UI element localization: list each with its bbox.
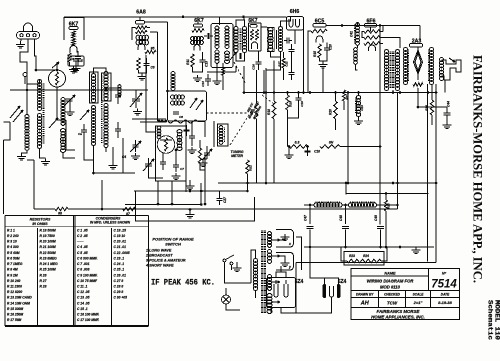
capacitor C23 electrolytic [358, 93, 360, 97]
wire choke link [342, 204, 350, 206]
oscillator coil [177, 130, 182, 151]
ground 6A8 [138, 74, 147, 81]
svg-text:C 28 8: C 28 8 [114, 285, 124, 289]
arrow into speaker [449, 58, 455, 62]
antenna coil L2 upper [37, 80, 41, 111]
grid cap 6K7 first [69, 27, 78, 30]
oscillator padder [160, 162, 166, 164]
svg-text:R 21 100M: R 21 100M [40, 245, 56, 249]
resistor 6A8 cathode [137, 58, 140, 70]
RF coil L4 upper [104, 72, 108, 101]
6F6 heater arch [369, 45, 376, 51]
wire vertical x247 [246, 183, 248, 191]
svg-text:C 15 .1: C 15 .1 [77, 307, 88, 311]
svg-text:WIRING DIAGRAM FOR: WIRING DIAGRAM FOR [367, 279, 414, 284]
resistor 6A8 grid [136, 26, 148, 29]
svg-text:R 28: R 28 [40, 285, 47, 289]
wire vertical x201 [200, 183, 202, 205]
svg-text:C 10 75 MMF: C 10 75 MMF [77, 279, 98, 283]
table frame [5, 216, 149, 327]
capacitor C8b in osc box [184, 130, 190, 131]
capacitor C7 [173, 165, 179, 167]
T2 secondary coil left [215, 50, 219, 63]
svg-text:C20: C20 [329, 44, 333, 50]
svg-text:C49: C49 [374, 215, 378, 221]
wire col x57 down [57, 87, 66, 120]
junction dots B+ [392, 91, 395, 94]
vertical wire x393 down [392, 90, 394, 93]
svg-text:MOD #110: MOD #110 [380, 284, 401, 289]
svg-text:7514: 7514 [431, 279, 457, 291]
svg-text:R 8 4M: R 8 4M [7, 268, 18, 272]
wires oscillator section [136, 90, 148, 92]
ground C9 [199, 160, 208, 167]
svg-text:6A8: 6A8 [136, 10, 146, 16]
output transformer primary [384, 50, 388, 91]
T2 primary coil left [215, 26, 219, 48]
svg-text:C 20 .01: C 20 .01 [114, 240, 127, 244]
wires left section [36, 69, 57, 71]
wire detector stub [56, 62, 58, 70]
bracket around sec 2 ground [276, 253, 294, 271]
ground trimmer [66, 109, 75, 116]
vertical wires to bottom bus [157, 181, 159, 204]
capacitor C9 swing [204, 153, 210, 155]
heater arch 6K7 second [194, 45, 200, 51]
vertical wire x428 [427, 84, 429, 262]
dashed line IF to meter [207, 112, 248, 114]
power transformer primary [253, 259, 257, 291]
T4 primary box [267, 28, 274, 52]
svg-text:R 6 50M: R 6 50M [7, 256, 20, 260]
svg-text:R 26: R 26 [40, 273, 47, 277]
box around L4 top [102, 73, 112, 101]
resistor 6K7 second grid [192, 29, 204, 32]
svg-text:C 23 .1: C 23 .1 [114, 256, 125, 260]
bracket around sec 1 ground [276, 230, 294, 248]
resistor R18 vertical [273, 93, 275, 102]
resistor R14 right [431, 84, 433, 100]
switch on volume control [223, 259, 226, 262]
vertical wire x380 [379, 26, 381, 225]
svg-text:C 22 .0005: C 22 .0005 [114, 251, 130, 255]
IF transformer T1 can [168, 91, 207, 121]
6C5 cathode resistor R15 [318, 44, 321, 58]
ground mid coils [109, 163, 118, 170]
RF coil L4 lower [104, 104, 108, 148]
6K7 third resistors [251, 30, 254, 41]
vertical wire x157 [157, 32, 159, 121]
wire C44 to 2A3 [417, 74, 419, 80]
svg-text:FAIRBANKS-MORSE HOME APP.,: FAIRBANKS-MORSE HOME APP., INC. [471, 55, 486, 283]
power transformer core [261, 231, 263, 313]
svg-text:R15: R15 [313, 51, 317, 57]
svg-text:6.3: 6.3 [295, 141, 300, 145]
trimmer cap second gang [132, 145, 138, 147]
svg-text:R 3 10: R 3 10 [7, 240, 17, 244]
svg-text:TCW: TCW [387, 301, 398, 306]
6K7 third arch [252, 42, 258, 49]
filter choke L11 [349, 203, 377, 208]
power transformer HV secondary upper [267, 232, 271, 248]
svg-text:R 17 56M: R 17 56M [7, 318, 22, 322]
svg-text:R16: R16 [250, 109, 254, 115]
heater arch 6A8 [138, 43, 145, 50]
title block frame [351, 269, 460, 320]
svg-text:C 12 .05: C 12 .05 [77, 290, 90, 294]
svg-text:C 29 8: C 29 8 [114, 290, 124, 294]
2A3 left coil [403, 48, 407, 85]
svg-text:8H: 8H [329, 141, 334, 145]
T3 trimmers [240, 53, 241, 59]
svg-text:R24: R24 [363, 254, 369, 258]
T2 primary coil right [225, 26, 229, 48]
capacitor below R17 [289, 73, 295, 75]
svg-text:AH: AH [360, 301, 370, 307]
dashed gang line upper [262, 95, 274, 104]
svg-text:R25: R25 [387, 203, 391, 209]
wire 6K7 second cathode [193, 67, 203, 72]
svg-text:C22: C22 [285, 61, 289, 67]
svg-text:C 6 300 MMF.: C 6 300 MMF. [77, 256, 98, 260]
capacitor C49 [377, 227, 384, 229]
svg-text:2 BROADCAST: 2 BROADCAST [145, 254, 173, 258]
T1 primary [171, 95, 185, 99]
svg-text:METER: METER [231, 154, 243, 158]
L3 box [90, 72, 99, 103]
antenna loop terminal strip [17, 32, 40, 40]
svg-text:R 11 2300: R 11 2300 [7, 285, 22, 289]
wire HV tap to rectifier [296, 237, 302, 270]
grid cap 6K7 second [194, 24, 203, 27]
tuning capacitor C2 [145, 164, 152, 166]
svg-text:C 4 .05: C 4 .05 [77, 245, 88, 249]
svg-text:C 26 .01: C 26 .01 [114, 273, 127, 277]
capacitor C48 [345, 205, 347, 224]
oscillator box [156, 126, 187, 181]
svg-text:R 27: R 27 [40, 279, 47, 283]
resistor R6 inline [55, 207, 68, 211]
tube circle 6A8 oscillator [157, 136, 175, 154]
6C5 heater arch [316, 36, 323, 43]
svg-text:R 7 1MEG: R 7 1MEG [7, 262, 23, 266]
wire bottom bus [68, 208, 397, 210]
svg-text:R18: R18 [267, 109, 271, 115]
vertical wire x436 [435, 84, 437, 263]
pilot lamp [222, 295, 231, 304]
ground C3 [72, 66, 81, 73]
wires T3 [236, 20, 245, 27]
wire 8H to right [340, 146, 380, 148]
wire 6K7 cathode to ground [69, 62, 71, 66]
ground L1 [17, 154, 26, 161]
T2 secondary coil right [225, 51, 230, 63]
5Z4 second plates [323, 284, 327, 298]
vertical wire x167 [167, 22, 169, 91]
svg-text:R 15 300M: R 15 300M [7, 307, 23, 311]
T4 trimmer [287, 38, 289, 44]
wire switch to transformer [225, 270, 252, 283]
speaker bracket [442, 60, 462, 80]
svg-text:CHECKED: CHECKED [384, 293, 400, 297]
wires rectifier outputs [281, 304, 332, 313]
capacitor C10 mid [189, 136, 195, 138]
wire 5Z4 plate leads [276, 272, 286, 278]
bypass capacitor C5 [75, 57, 81, 59]
ground C23 [354, 118, 363, 125]
svg-text:Ca: Ca [78, 132, 82, 136]
T1 switch arrows [190, 98, 197, 108]
junction dot bus x243 [242, 15, 245, 18]
wire vertical x219 [219, 191, 221, 196]
dashed gang line from T2 [234, 62, 246, 84]
svg-text:C 11 .1: C 11 .1 [77, 285, 88, 289]
heater arch 6K7 first [70, 46, 77, 53]
ground C18 [285, 152, 294, 159]
ground second gang [131, 153, 140, 160]
wire nested corners near gang [132, 118, 166, 120]
6F6 grid cap [365, 24, 377, 28]
envelope 6K7 first [64, 18, 84, 41]
svg-text:Schematic: Schematic [487, 300, 494, 340]
T2 trimmer cap left upper [208, 33, 209, 39]
wire primary top [251, 250, 256, 283]
wire antenna to coils [26, 71, 28, 77]
wire L5 bottom [63, 152, 75, 158]
svg-text:C14: C14 [201, 81, 205, 87]
T2 resistor R12 [222, 68, 225, 76]
wire range switch y191 [134, 190, 247, 192]
trimmer with arrow [66, 99, 73, 101]
svg-text:R19: R19 [289, 101, 293, 107]
capacitor C44 [444, 113, 451, 115]
resistor R2 horizontal [168, 120, 198, 124]
ground range box [186, 212, 195, 219]
svg-text:3 POLICE & AMATEUR: 3 POLICE & AMATEUR [146, 259, 186, 263]
capacitor C27 [217, 199, 223, 201]
horizontal connect y183 [218, 182, 436, 184]
wire bleeder [341, 247, 347, 261]
svg-text:C 5 .05: C 5 .05 [77, 251, 88, 255]
wire speaker down [444, 80, 446, 93]
wire 6C5 plate to bus right [326, 25, 420, 27]
T2 ground [213, 78, 222, 85]
svg-text:Nº: Nº [442, 271, 447, 275]
wire T3 to B+ bus [243, 66, 245, 93]
output transformer secondary [395, 50, 399, 91]
svg-text:NAME: NAME [384, 271, 396, 275]
6H6 envelope box [287, 17, 304, 31]
oscillator grid coil column [171, 72, 175, 91]
wire 6F6 plate loop [370, 27, 372, 32]
capacitor C16 [256, 62, 262, 64]
wire 6H6 box bottom drops [263, 70, 265, 93]
svg-text:R 9 2M: R 9 2M [7, 273, 18, 277]
wire R19 C19 join [288, 105, 299, 118]
wire 2A3 top [417, 47, 419, 50]
wire col x84 down [84, 138, 94, 160]
capacitor C19 [296, 98, 302, 100]
svg-text:C7: C7 [180, 167, 184, 171]
resistor under 2A3 [413, 83, 423, 86]
svg-text:R20: R20 [329, 109, 333, 115]
svg-text:R 23 8MEG: R 23 8MEG [40, 256, 58, 260]
RF coil L3 lower [91, 106, 95, 146]
power transformer secondary 4 [267, 294, 272, 314]
vertical wire x274 [273, 61, 275, 93]
IF transformer T4 primary [268, 28, 273, 52]
wire antenna right terminal down [35, 39, 37, 70]
6C5 grid cap [313, 24, 326, 28]
ground oscillator [172, 173, 181, 180]
resistor R23 [347, 259, 364, 263]
small resistor R25 [385, 194, 387, 201]
title block column lines [428, 269, 430, 291]
svg-text:R 12 8200: R 12 8200 [7, 290, 22, 294]
switch arrows at detector [52, 62, 59, 68]
6K7 third envelope [249, 23, 262, 51]
svg-text:C 18 .25: C 18 .25 [114, 228, 127, 232]
svg-text:SWITCH: SWITCH [165, 242, 181, 247]
svg-text:C 16 100 MMF.: C 16 100 MMF. [77, 313, 100, 317]
svg-text:R 13 20M CAND: R 13 20M CAND [7, 296, 32, 300]
svg-text:R 24 1 MEG: R 24 1 MEG [40, 262, 59, 266]
tuning capacitor C1 [132, 99, 140, 101]
ground L2 [41, 159, 50, 166]
5Z4 first cathode sleeves [274, 284, 278, 297]
wire 6C5 drop to bus [307, 38, 309, 93]
svg-text:R 5 40M: R 5 40M [7, 251, 20, 255]
wire filter bottom bus [304, 246, 434, 248]
svg-text:C41: C41 [350, 31, 354, 37]
svg-text:C23: C23 [360, 105, 364, 111]
svg-text:C 14 .05: C 14 .05 [77, 301, 90, 305]
svg-text:C3: C3 [70, 57, 74, 61]
capacitor block C3 [68, 56, 84, 66]
6C5 grid resistor [311, 29, 327, 33]
ground 6C5 [319, 62, 328, 69]
wire x102 vertical [101, 180, 103, 209]
T3 secondary [242, 27, 246, 53]
wave band coil L5 lower [61, 129, 66, 153]
6H6 capacitor below [289, 50, 295, 52]
IF coil pair 6K7 second [191, 37, 204, 41]
svg-text:C8: C8 [179, 115, 183, 119]
antenna coil L2 lower [37, 114, 41, 149]
wire bus into 6H6 [283, 16, 287, 18]
svg-text:R 2 240: R 2 240 [7, 234, 19, 238]
RF coil L3 upper [91, 74, 95, 103]
wire antenna terminal to L1 [26, 77, 28, 115]
dashed diagonal to tuning meter [230, 111, 252, 145]
svg-text:C 1 .05: C 1 .05 [77, 228, 88, 232]
2A3 filament diamond [414, 50, 423, 74]
wires T4 [261, 26, 267, 28]
svg-text:C 25 .1: C 25 .1 [114, 268, 125, 272]
svg-text:C4: C4 [122, 155, 126, 159]
wave band coil L5 upper [61, 98, 65, 126]
resistor 6.3 ohm [289, 145, 308, 149]
svg-text:R 14 10M OHM: R 14 10M OHM [7, 301, 30, 305]
svg-text:2=1″: 2=1″ [413, 300, 424, 305]
svg-text:C 7 .001: C 7 .001 [77, 262, 90, 266]
svg-text:C 9 100 MMF.: C 9 100 MMF. [77, 273, 98, 277]
vertical wire x397 [396, 93, 398, 210]
resistor R16 vertical [256, 70, 258, 103]
svg-text:C 24 .1: C 24 .1 [114, 262, 125, 266]
resistor R21 vertical [342, 90, 345, 101]
ground right lower [412, 247, 421, 254]
svg-text:8-19-38: 8-19-38 [438, 300, 453, 305]
svg-text:C16: C16 [252, 64, 256, 70]
wire x348 vertical [347, 93, 349, 184]
capacitor C13 [200, 60, 206, 62]
capacitor C20 [324, 48, 330, 50]
T4 core line [276, 30, 278, 49]
capacitor C18 [305, 151, 311, 152]
capacitor C6 [144, 64, 150, 66]
wire bottom loop y262 [296, 262, 436, 264]
tuning meter coil [218, 124, 229, 146]
svg-text:IF PEAK 456 KC.: IF PEAK 456 KC. [151, 279, 215, 288]
oscillator coil small left [157, 126, 161, 139]
capacitor C4a [115, 95, 121, 97]
svg-text:C27: C27 [223, 197, 227, 203]
wire left edge vertical [3, 140, 5, 214]
title block row lines [351, 275, 429, 277]
antenna coil L1 [25, 115, 29, 151]
ground C44 [443, 122, 452, 129]
power transformer secondary 2 [268, 250, 272, 264]
svg-text:C 19 10: C 19 10 [114, 234, 126, 238]
svg-text:C13: C13 [205, 61, 209, 67]
capacitor C4b [115, 129, 121, 131]
capacitor C41 electrolytic [356, 23, 360, 46]
wire B+ bus [244, 92, 436, 94]
T3 core [240, 29, 242, 49]
svg-text:R 25 100M: R 25 100M [40, 268, 56, 272]
switch contact arrows left [10, 106, 20, 118]
wire left stub y122 [4, 121, 11, 123]
6K7 third grid cap [250, 25, 257, 28]
svg-text:4 SHORT WAVE: 4 SHORT WAVE [145, 264, 174, 268]
T4 secondary [278, 27, 282, 52]
svg-text:R11: R11 [186, 59, 190, 65]
svg-text:R 22 500M: R 22 500M [40, 251, 56, 255]
tube circle first detector [49, 70, 66, 87]
wire col x66 down [66, 120, 75, 150]
resistor R11 [191, 54, 194, 67]
svg-text:R14: R14 [425, 105, 429, 111]
svg-text:R22: R22 [249, 165, 253, 171]
wire heavy bus above table [5, 215, 149, 217]
oscillator coil pair 6A8 [136, 35, 148, 40]
ground transformer sec 1 [281, 234, 290, 241]
svg-text:R 19 7500: R 19 7500 [40, 234, 55, 238]
resistor 6A8 grid second [136, 30, 148, 33]
capacitor C47 [309, 205, 311, 224]
bleeder box [344, 252, 384, 266]
resistor R19 vertical [287, 93, 289, 96]
svg-text:C 21 .01: C 21 .01 [114, 245, 127, 249]
junction dots buses [204, 203, 207, 206]
svg-text:DATE: DATE [441, 293, 450, 297]
resistor R17 [282, 58, 285, 68]
wire C2 [148, 158, 150, 164]
IF transformer T3 primary [234, 27, 238, 53]
filter choke L10 [314, 203, 342, 208]
svg-text:C18: C18 [314, 150, 320, 154]
